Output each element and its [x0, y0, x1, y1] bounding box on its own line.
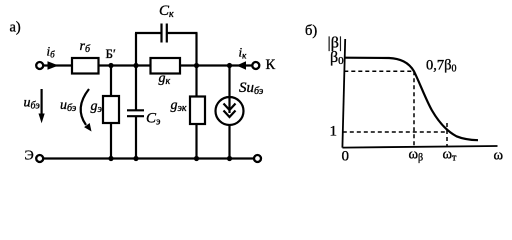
terminal K — [252, 62, 259, 69]
node C_э top dot — [133, 63, 138, 68]
label g_к — [159, 71, 171, 87]
node g_эк top dot — [194, 63, 199, 68]
label C_э — [146, 111, 161, 128]
label К — [266, 57, 276, 73]
resistor g_к — [151, 58, 181, 74]
label g_эк — [171, 98, 187, 114]
node C_э bottom dot — [133, 156, 138, 161]
svg-text:б): б) — [305, 23, 317, 39]
label 1 — [330, 124, 338, 140]
terminal Э — [36, 155, 43, 162]
chart y-axis — [342, 39, 345, 148]
node g_э bottom dot — [108, 156, 113, 161]
node source bottom dot — [227, 156, 232, 161]
svg-text:1: 1 — [330, 124, 338, 140]
wire: main top rail B'-K — [43, 64, 253, 66]
resistor g_эк — [190, 97, 205, 125]
input terminal base — [36, 62, 43, 69]
terminal bottom right — [254, 155, 261, 162]
wire: branch g_эк / C_к right leg — [195, 33, 197, 159]
chart x-axis — [342, 146, 497, 148]
node g_эк bottom dot — [194, 156, 199, 161]
wire: branch C_э / C_к left leg — [135, 33, 137, 159]
label |β| — [328, 35, 343, 52]
svg-text:Э: Э — [25, 149, 34, 164]
node Б' dot — [108, 63, 113, 68]
label β0 — [330, 49, 344, 67]
dashed vertical ω_т — [446, 123, 448, 147]
label ω_β — [409, 147, 424, 164]
label u_бэ mid — [60, 98, 77, 114]
label Б' — [106, 46, 116, 61]
node source top dot — [227, 63, 232, 68]
wire: C_к top branch horizontal — [135, 32, 198, 34]
capacitor C_э — [127, 110, 144, 116]
voltage u_бэ curved arrow — [81, 89, 92, 132]
dashed 1 level — [343, 131, 447, 133]
dashed vertical ω_β — [413, 71, 415, 147]
beta curve — [345, 58, 478, 141]
current i_б arrow — [48, 61, 59, 69]
label 0,7β0 — [426, 58, 457, 75]
svg-text:К: К — [266, 57, 276, 73]
svg-text:ω: ω — [494, 148, 504, 164]
label r_б — [80, 39, 91, 55]
label a) — [10, 20, 21, 36]
label ω — [494, 148, 504, 164]
label i_к — [239, 45, 248, 61]
voltage u_бэ arrow (left) — [39, 89, 45, 123]
resistor r_б — [72, 58, 99, 74]
label C_к — [159, 3, 174, 20]
label i_б — [47, 44, 56, 60]
current source Su_бэ — [216, 97, 244, 125]
svg-text:Б′: Б′ — [106, 46, 116, 61]
wire: branch g_э (node Б' down) — [110, 66, 112, 159]
resistor g_э — [103, 96, 119, 123]
label u_бэ left — [24, 96, 41, 112]
label 0 — [342, 149, 350, 165]
current i_к arrow — [237, 61, 247, 69]
wire: branch current source — [228, 66, 230, 159]
dashed 0.7β0 level — [344, 70, 414, 72]
label Su_бэ — [239, 80, 264, 97]
wire: bottom rail Э — [43, 157, 255, 159]
label б) — [305, 23, 317, 39]
svg-text:0: 0 — [342, 149, 350, 165]
label ω_т — [443, 147, 458, 164]
capacitor C_к — [162, 24, 167, 43]
label g_э — [91, 99, 103, 115]
svg-text:а): а) — [10, 20, 21, 36]
label Э — [25, 149, 34, 164]
